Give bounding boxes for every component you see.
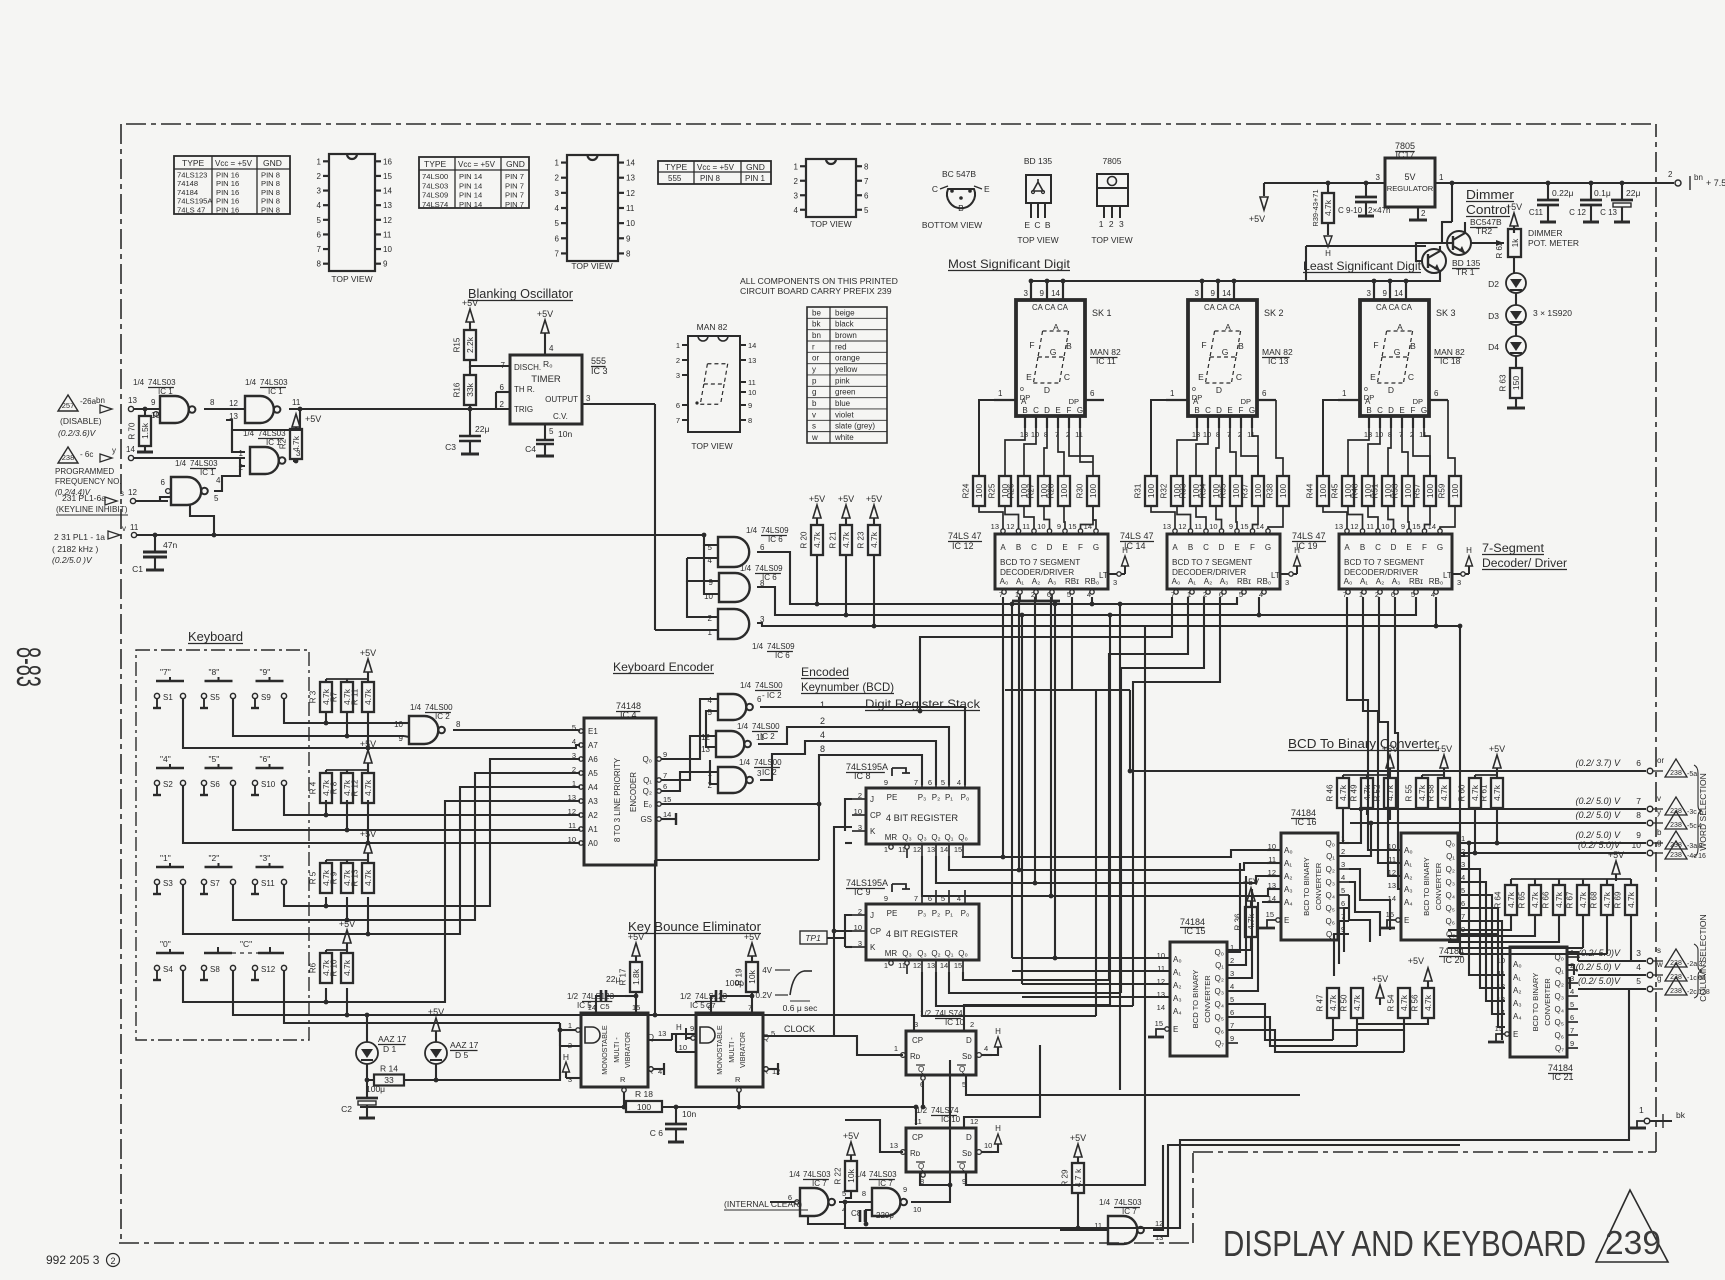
resistor R21 4.7k with +5V (842, 505, 850, 518)
svg-text:11: 11 (1094, 1221, 1102, 1230)
svg-text:R 21: R 21 (829, 531, 838, 548)
keyboard row2 wires (284, 785, 580, 815)
wire IC6a output line (757, 552, 1237, 604)
svg-text:Least Significant Digit: Least Significant Digit (1303, 259, 1422, 273)
svg-text:1: 1 (894, 1044, 898, 1053)
svg-text:Q₃: Q₃ (1555, 992, 1564, 1001)
svg-text:P₁: P₁ (945, 909, 953, 918)
svg-text:Q₅: Q₅ (1215, 1013, 1224, 1022)
wires IC20 outputs (1459, 842, 1469, 844)
svg-text:74LS09: 74LS09 (761, 526, 789, 535)
svg-text:C7: C7 (706, 1001, 716, 1010)
wire display3 pin1 to R44 (1323, 400, 1338, 476)
svg-text:C: C (1205, 406, 1211, 415)
wires IC16 inputs left stubs (1267, 849, 1281, 851)
gate IC2d 74LS00 (718, 767, 746, 793)
svg-text:Q₁: Q₁ (945, 949, 954, 958)
svg-text:PIN 7: PIN 7 (505, 191, 524, 200)
svg-text:s: s (120, 489, 124, 498)
svg-text:9: 9 (1636, 830, 1641, 840)
svg-text:4.7k: 4.7k (363, 688, 373, 705)
resistor R2 4.7k with +5V (292, 414, 300, 427)
svg-text:CA CA CA: CA CA CA (1032, 303, 1069, 312)
wire display1 pin1 to R24 (979, 400, 994, 476)
svg-text:+5V: +5V (360, 648, 376, 658)
svg-text:2: 2 (1341, 847, 1345, 856)
test point TP1 (800, 931, 827, 944)
decoder2 rbo wire (1258, 597, 1260, 615)
resistor R29 4.7k +5V (1074, 1144, 1082, 1157)
svg-text:16: 16 (383, 157, 392, 166)
svg-text:IC 9: IC 9 (854, 887, 871, 897)
svg-text:A₃: A₃ (1284, 885, 1293, 894)
resistor R16 33k (464, 375, 476, 405)
svg-text:S1: S1 (163, 693, 173, 702)
svg-text:555: 555 (668, 174, 682, 183)
svg-text:LT: LT (1271, 571, 1280, 580)
svg-text:B: B (1016, 543, 1021, 552)
svg-text:14: 14 (626, 159, 635, 168)
svg-text:74184: 74184 (177, 188, 198, 197)
svg-text:Blanking Oscillator: Blanking Oscillator (468, 286, 574, 301)
wires resistors to decoder2 inputs (1151, 506, 1175, 529)
svg-text:-5a: -5a (1687, 771, 1697, 778)
border frame (dash-dot) (126, 123, 1656, 125)
svg-text:6: 6 (1230, 1008, 1234, 1017)
svg-text:PIN 16: PIN 16 (216, 171, 239, 180)
svg-text:1/2: 1/2 (567, 992, 579, 1001)
svg-text:9: 9 (903, 1185, 907, 1194)
svg-text:o: o (1020, 386, 1024, 393)
svg-text:VIBRATOR: VIBRATOR (623, 1032, 632, 1068)
svg-text:1.5k: 1.5k (140, 422, 150, 439)
svg-text:4.7k: 4.7k (1439, 784, 1449, 801)
svg-text:Q₄: Q₄ (1446, 891, 1456, 900)
svg-text:B: B (1238, 341, 1244, 351)
wire TR1 emitter to anode rail (1031, 277, 1440, 281)
svg-text:R16: R16 (453, 382, 462, 397)
svg-text:Vᴄᴄ = +5V: Vᴄᴄ = +5V (215, 159, 253, 168)
svg-text:R 11: R 11 (351, 688, 360, 705)
svg-text:D2: D2 (1488, 279, 1499, 289)
svg-text:4.7k: 4.7k (1492, 784, 1502, 801)
svg-text:1k: 1k (1511, 238, 1520, 247)
svg-text:E1: E1 (588, 727, 598, 736)
svg-text:100: 100 (1425, 484, 1435, 498)
svg-text:A₂: A₂ (1404, 872, 1412, 881)
svg-text:11: 11 (130, 523, 139, 532)
svg-text:CA CA CA: CA CA CA (1204, 303, 1241, 312)
svg-text:Sᴅ: Sᴅ (962, 1052, 972, 1061)
svg-text:R51: R51 (1371, 483, 1380, 498)
svg-text:CP: CP (870, 927, 881, 936)
svg-text:R 64: R 64 (1494, 891, 1503, 908)
svg-text:CONVERTER: CONVERTER (1543, 978, 1552, 1026)
svg-text:5: 5 (555, 219, 560, 228)
svg-text:R15: R15 (453, 337, 462, 352)
svg-text:A: A (1397, 322, 1403, 332)
svg-text:F: F (1250, 543, 1255, 552)
svg-text:Q₃: Q₃ (1446, 878, 1455, 887)
pull-up resistors R47 R50 (1327, 988, 1339, 1018)
svg-text:13: 13 (927, 961, 935, 970)
svg-text:14: 14 (1388, 894, 1396, 903)
wires resistors to decoder1 inputs (979, 506, 1003, 529)
keyboard pull-up resistors row2 R4 R8 R12 (364, 750, 372, 763)
svg-text:PIN 14: PIN 14 (459, 191, 482, 200)
svg-text:G: G (1222, 347, 1229, 357)
svg-text:8: 8 (862, 1189, 866, 1198)
svg-text:R 67: R 67 (1566, 891, 1575, 908)
svg-text:13: 13 (1192, 430, 1200, 439)
svg-text:4 BIT REGISTER: 4 BIT REGISTER (886, 813, 958, 823)
pull-up resistors R60 R61 (1493, 755, 1501, 768)
svg-text:Vᴄᴄ = +5V: Vᴄᴄ = +5V (458, 160, 496, 169)
resistor R44 100 (1317, 476, 1329, 506)
capacitor C13 22u polarized (1621, 183, 1623, 200)
svg-text:-26a: -26a (80, 397, 97, 406)
svg-text:bk: bk (812, 320, 821, 329)
svg-text:MULTI -: MULTI - (727, 1037, 736, 1063)
resistor R33 100 (1190, 476, 1202, 506)
svg-text:1: 1 (572, 779, 576, 788)
svg-text:PIN 14: PIN 14 (459, 172, 482, 181)
svg-text:Q₆: Q₆ (1215, 1026, 1224, 1035)
svg-text:PIN 8: PIN 8 (261, 197, 280, 206)
svg-text:RBɪ: RBɪ (1237, 577, 1251, 586)
svg-text:R 18: R 18 (635, 1089, 653, 1099)
svg-text:(0.2/3.6)V: (0.2/3.6)V (58, 428, 97, 438)
svg-text:(0.2/ 5.0)V: (0.2/ 5.0)V (1578, 976, 1621, 986)
svg-text:4: 4 (794, 206, 799, 215)
svg-text:13: 13 (1020, 430, 1028, 439)
svg-text:11: 11 (1388, 855, 1396, 864)
svg-text:C: C (1033, 406, 1039, 415)
svg-text:C3: C3 (445, 442, 456, 452)
svg-text:R 17: R 17 (619, 968, 628, 985)
svg-text:Dimmer: Dimmer (1466, 188, 1514, 202)
svg-text:5: 5 (708, 708, 713, 717)
svg-text:5: 5 (1636, 976, 1641, 986)
svg-text:R27: R27 (1027, 483, 1036, 498)
resistor R19 10k (748, 943, 756, 956)
svg-text:12: 12 (970, 1117, 978, 1126)
svg-text:(0.2/ 5.0) V: (0.2/ 5.0) V (1575, 796, 1621, 806)
svg-text:PIN 16: PIN 16 (216, 197, 239, 206)
svg-text:IC 10: IC 10 (945, 1018, 965, 1027)
svg-text:R₀: R₀ (543, 359, 553, 369)
svg-text:100: 100 (1059, 484, 1069, 498)
svg-text:D 1: D 1 (383, 1044, 397, 1054)
svg-text:12: 12 (913, 961, 921, 970)
svg-text:14: 14 (748, 341, 756, 350)
bus into IC15 converter (1012, 957, 1170, 959)
svg-text:PIN 8: PIN 8 (261, 188, 280, 197)
svg-text:Q₇: Q₇ (1215, 1039, 1224, 1048)
svg-text:3: 3 (1341, 860, 1345, 869)
svg-text:w: w (811, 433, 818, 442)
svg-text:9: 9 (709, 578, 714, 587)
svg-text:A3: A3 (588, 797, 598, 806)
gate IC6c 74LS09 (718, 609, 749, 639)
svg-text:6: 6 (676, 401, 680, 410)
svg-text:9: 9 (1230, 1034, 1234, 1043)
svg-text:B: B (958, 203, 964, 213)
svg-text:Q₃: Q₃ (917, 949, 926, 958)
svg-text:C: C (1064, 372, 1070, 382)
svg-text:green: green (835, 388, 855, 397)
wire from 555 output down to IC6 (654, 404, 656, 630)
svg-text:R 52: R 52 (1373, 784, 1382, 801)
svg-text:"5": "5" (209, 754, 220, 764)
svg-text:R37: R37 (1241, 483, 1250, 498)
wires IC1d (136, 497, 171, 501)
svg-text:10: 10 (1203, 430, 1211, 439)
svg-text:3: 3 (1285, 578, 1289, 587)
BCD to 7-segment decoder/driver IC 14 74LS47 (1167, 534, 1280, 589)
svg-text:RBɪ: RBɪ (1409, 577, 1423, 586)
svg-text:FREQUENCY NO.: FREQUENCY NO. (55, 477, 122, 486)
svg-text:PIN 8: PIN 8 (261, 179, 280, 188)
svg-text:A4: A4 (588, 783, 598, 792)
svg-text:2: 2 (110, 1256, 115, 1266)
svg-text:3: 3 (1636, 948, 1641, 958)
svg-text:8: 8 (626, 249, 631, 258)
svg-text:238: 238 (1670, 852, 1682, 859)
wire TR1 base-collector (1416, 243, 1447, 261)
wire TR2 base from regulator node (1442, 222, 1452, 243)
svg-text:A1: A1 (588, 825, 598, 834)
svg-text:G: G (1394, 347, 1401, 357)
svg-text:"3": "3" (260, 853, 271, 863)
svg-text:PE: PE (887, 909, 898, 918)
svg-text:TYPE: TYPE (665, 162, 688, 172)
capacitor C9-10 2x47n (1365, 183, 1367, 197)
svg-text:S12: S12 (261, 965, 276, 974)
svg-text:74LS03: 74LS03 (803, 1170, 831, 1179)
svg-text:8: 8 (820, 744, 825, 754)
svg-text:A: A (1021, 397, 1027, 406)
svg-text:13: 13 (658, 1029, 666, 1038)
svg-text:MAN 82: MAN 82 (697, 322, 728, 332)
wire R16 bottom to trig node (469, 405, 471, 409)
svg-text:R 55: R 55 (1405, 784, 1414, 801)
svg-text:R 65: R 65 (1518, 891, 1527, 908)
svg-text:R33: R33 (1179, 483, 1188, 498)
svg-text:2: 2 (676, 356, 680, 365)
svg-text:257: 257 (62, 401, 75, 410)
svg-text:3: 3 (317, 187, 322, 196)
svg-text:8 TO 3 LINE PRIORITY: 8 TO 3 LINE PRIORITY (613, 757, 622, 842)
svg-text:14: 14 (1157, 1003, 1165, 1012)
resistor R36 4.7k +5V (1247, 888, 1255, 901)
svg-text:MR: MR (885, 949, 898, 958)
svg-text:CA CA CA: CA CA CA (1376, 303, 1413, 312)
gate IC2c 74LS00 (716, 731, 744, 757)
svg-text:P₃: P₃ (918, 793, 927, 802)
svg-text:4.7k: 4.7k (342, 959, 352, 976)
svg-text:74LS03: 74LS03 (1114, 1198, 1142, 1207)
svg-text:13: 13 (568, 793, 576, 802)
svg-text:E: E (1227, 406, 1232, 415)
svg-text:IC 1: IC 1 (268, 387, 283, 396)
svg-text:R 14: R 14 (380, 1064, 398, 1074)
svg-text:10: 10 (1037, 522, 1045, 531)
svg-text:R34: R34 (1199, 483, 1208, 498)
svg-text:A₂: A₂ (1204, 577, 1212, 586)
svg-text:2×47n: 2×47n (1368, 206, 1390, 215)
svg-text:A6: A6 (588, 755, 598, 764)
svg-text:14: 14 (940, 961, 948, 970)
svg-text:S11: S11 (261, 879, 275, 888)
svg-text:IC 6: IC 6 (768, 535, 783, 544)
svg-text:9: 9 (151, 398, 156, 407)
svg-text:F: F (1373, 340, 1378, 350)
svg-text:6: 6 (1434, 389, 1439, 398)
pin 2 TRIG (470, 408, 510, 410)
output line -5c 4 (1350, 822, 1646, 824)
svg-text:D: D (1216, 385, 1222, 395)
svg-text:A₁: A₁ (1016, 577, 1024, 586)
svg-text:D: D (1044, 406, 1050, 415)
svg-text:or: or (1657, 756, 1664, 765)
svg-text:33: 33 (384, 1075, 394, 1085)
wire IC6c output line (757, 623, 1460, 626)
wires IC6 inputs (704, 535, 718, 545)
svg-text:11: 11 (1157, 964, 1165, 973)
svg-text:Rᴅ: Rᴅ (910, 1149, 921, 1158)
svg-text:9: 9 (383, 260, 388, 269)
svg-text:5: 5 (572, 723, 576, 732)
svg-text:2 31 PL1 - 1a: 2 31 PL1 - 1a (54, 532, 105, 542)
svg-text:14: 14 (1428, 522, 1436, 531)
wire pot to LEDs (1513, 257, 1515, 274)
svg-text:6: 6 (757, 695, 762, 704)
svg-text:v: v (122, 524, 126, 533)
terminal +7.5V bn (1675, 180, 1681, 186)
svg-text:13: 13 (1163, 522, 1171, 531)
svg-text:74LS03: 74LS03 (869, 1170, 897, 1179)
svg-text:TR2: TR2 (1476, 226, 1492, 236)
svg-text:TP1: TP1 (805, 933, 821, 943)
svg-text:1: 1 (884, 845, 888, 854)
output line -3a 8 (1460, 842, 1646, 844)
svg-text:10: 10 (913, 1205, 921, 1214)
svg-text:D: D (1388, 385, 1394, 395)
svg-text:F: F (1422, 543, 1427, 552)
svg-text:3: 3 (1461, 860, 1465, 869)
wire IC1a out to IC1b (204, 408, 245, 410)
svg-text:TRIG: TRIG (514, 405, 533, 414)
svg-text:100: 100 (1146, 484, 1156, 498)
svg-text:7: 7 (663, 771, 667, 780)
svg-text:R 54: R 54 (1387, 994, 1396, 1011)
LED D2 (1506, 273, 1526, 293)
svg-text:"7": "7" (160, 667, 171, 677)
svg-text:1/4: 1/4 (746, 526, 758, 535)
svg-text:R 60: R 60 (1458, 784, 1467, 801)
svg-text:R 62: R 62 (1495, 241, 1504, 258)
svg-text:238: 238 (1670, 822, 1682, 829)
wires display2 segments to resistors (1177, 428, 1197, 476)
svg-text:R 66: R 66 (1542, 891, 1551, 908)
IC package 14-pin DIP top view (567, 155, 618, 261)
wire internal clear input (770, 1201, 795, 1203)
svg-text:BCD To Binary Converter: BCD To Binary Converter (1288, 737, 1439, 751)
svg-text:13: 13 (1364, 430, 1372, 439)
svg-text:74LS00: 74LS00 (422, 172, 448, 181)
svg-text:DECODER/DRIVER: DECODER/DRIVER (1172, 568, 1246, 577)
svg-text:Q₂: Q₂ (1446, 865, 1455, 874)
svg-text:4: 4 (984, 1044, 988, 1053)
svg-text:BCD TO 7 SEGMENT: BCD TO 7 SEGMENT (1344, 558, 1424, 567)
svg-text:1: 1 (998, 389, 1003, 398)
svg-text:R 10: R 10 (330, 959, 339, 976)
svg-text:PIN 16: PIN 16 (216, 205, 239, 214)
svg-text:2: 2 (708, 614, 713, 623)
svg-text:74LS09: 74LS09 (422, 191, 448, 200)
svg-text:7: 7 (555, 249, 560, 258)
svg-text:9: 9 (626, 234, 631, 243)
svg-text:A₂: A₂ (1376, 577, 1384, 586)
svg-text:A₄: A₄ (1404, 898, 1413, 907)
svg-text:+5V: +5V (838, 494, 854, 504)
svg-text:4V: 4V (762, 966, 772, 975)
svg-text:1: 1 (1170, 389, 1175, 398)
svg-text:+5V: +5V (1608, 850, 1624, 860)
svg-text:1/4: 1/4 (740, 564, 752, 573)
capacitor C11 0.22u (1547, 183, 1549, 200)
svg-text:10: 10 (383, 245, 392, 254)
svg-text:10: 10 (394, 720, 403, 729)
resistor R27 100 (1038, 476, 1050, 506)
svg-text:74LS195A: 74LS195A (177, 197, 213, 206)
wires converter outputs to word lines (1343, 842, 1349, 844)
svg-text:MONOSTABLE: MONOSTABLE (715, 1025, 724, 1075)
IC package 8-pin DIP top view (806, 159, 856, 217)
svg-text:D 5: D 5 (455, 1050, 469, 1060)
svg-text:PIN 14: PIN 14 (459, 181, 482, 190)
svg-text:A₀: A₀ (1173, 955, 1182, 964)
svg-text:DECODER/DRIVER: DECODER/DRIVER (1344, 568, 1418, 577)
grounds under decoder1 (1019, 594, 1021, 601)
svg-text:74LS123: 74LS123 (177, 171, 207, 180)
svg-text:3: 3 (1113, 578, 1117, 587)
svg-text:4.7k: 4.7k (1352, 994, 1362, 1011)
wire clock vertical to FF2 (915, 1107, 917, 1112)
wire IC1c out joins R2 (293, 460, 296, 462)
resistor R57 100 (1424, 476, 1436, 506)
wire disable to IC1 gate (134, 408, 160, 410)
svg-text:1/4: 1/4 (855, 1170, 867, 1179)
svg-text:1: 1 (1342, 389, 1347, 398)
svg-text:1/4: 1/4 (740, 681, 752, 690)
svg-text:7-Segment: 7-Segment (1482, 543, 1545, 555)
svg-text:3: 3 (1457, 578, 1461, 587)
svg-text:150: 150 (1511, 376, 1521, 390)
svg-text:E: E (1406, 543, 1411, 552)
svg-text:11: 11 (568, 821, 576, 830)
svg-text:A₁: A₁ (1360, 577, 1368, 586)
svg-text:74LS03: 74LS03 (422, 181, 448, 190)
resistor R39-43+71 4.7k (1327, 183, 1329, 193)
svg-text:C4: C4 (525, 444, 536, 454)
wires IC2a (403, 722, 409, 724)
svg-text:3: 3 (296, 449, 301, 458)
svg-text:H: H (995, 1027, 1001, 1036)
svg-text:IC 21: IC 21 (1552, 1072, 1574, 1082)
svg-text:9: 9 (1383, 289, 1388, 298)
